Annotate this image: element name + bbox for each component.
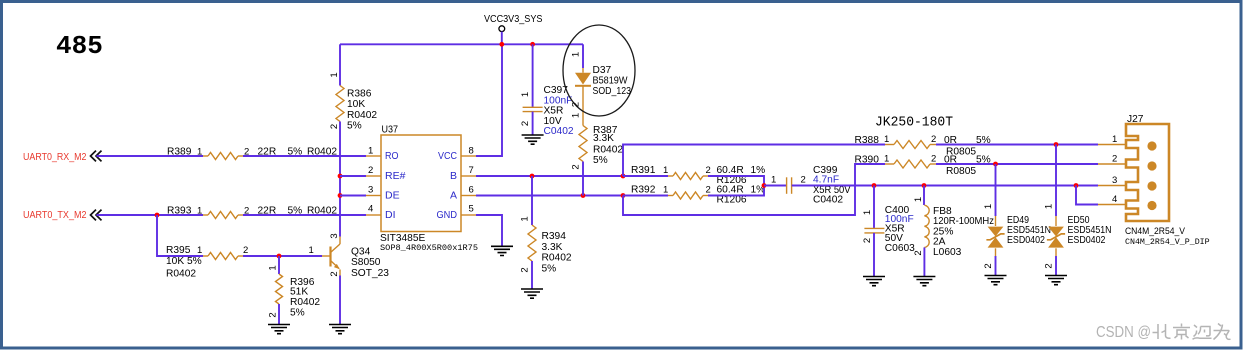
svg-text:SIT3485E: SIT3485E bbox=[380, 233, 426, 244]
wire C400 to ground bbox=[873, 233, 875, 276]
svg-text:5%: 5% bbox=[542, 263, 557, 274]
svg-text:UART0_TX_M2: UART0_TX_M2 bbox=[23, 210, 87, 221]
junction VCC rail node bbox=[499, 42, 504, 47]
U37 pin stubs right bbox=[461, 156, 476, 215]
junction R395/R396 node bbox=[277, 254, 282, 259]
svg-text:1: 1 bbox=[884, 154, 889, 165]
wire to DE pin bbox=[340, 195, 366, 197]
svg-text:1: 1 bbox=[862, 210, 873, 215]
wire UART0_RX_M2 to R389 bbox=[97, 155, 204, 157]
pin name RE# bbox=[385, 170, 406, 182]
svg-text:1: 1 bbox=[1044, 204, 1055, 209]
svg-text:10K: 10K bbox=[347, 99, 365, 110]
junction B/R391 node bbox=[621, 174, 626, 179]
label D37 bbox=[593, 65, 632, 97]
junction J27 pin4 branch node bbox=[1074, 183, 1079, 188]
inductor FB8 ferrite bead bbox=[924, 205, 929, 247]
junction TX node bbox=[155, 213, 160, 218]
svg-text:1: 1 bbox=[663, 165, 668, 176]
svg-text:SOD_123: SOD_123 bbox=[593, 86, 632, 97]
wire branch to J27 pin4 bbox=[1076, 186, 1098, 205]
svg-text:C0603: C0603 bbox=[885, 243, 915, 254]
junction R387 node on A row bbox=[581, 193, 586, 198]
connector J27 pin circle 4 bbox=[1147, 201, 1156, 210]
pin number 7 U37 bbox=[469, 165, 474, 176]
transistor Q34 S8050 bbox=[322, 237, 340, 276]
wire down to R396 bbox=[278, 256, 280, 274]
svg-text:5%: 5% bbox=[290, 307, 305, 318]
pin number 3 U37 bbox=[368, 185, 373, 196]
resistor R391 60.4R bbox=[668, 173, 708, 180]
pin number 2 Q34 emitter bbox=[329, 271, 340, 276]
wire R393 to U37 pin4 bbox=[243, 214, 366, 216]
svg-text:GND: GND bbox=[437, 209, 458, 221]
svg-text:2: 2 bbox=[931, 154, 936, 165]
wire VCC pin8 up to rail bbox=[476, 44, 502, 156]
label C399 bbox=[771, 165, 851, 206]
pin name GND bbox=[437, 209, 458, 221]
svg-text:1: 1 bbox=[571, 113, 582, 118]
pin number 6 U37 bbox=[469, 185, 474, 196]
wire node down to FB8 bbox=[923, 186, 925, 206]
svg-text:D37: D37 bbox=[593, 65, 612, 76]
svg-text:R389: R389 bbox=[167, 146, 192, 157]
label R388 bbox=[855, 134, 991, 158]
resistor R390 0R bbox=[885, 160, 936, 168]
svg-text:UART0_RX_M2: UART0_RX_M2 bbox=[23, 152, 87, 163]
svg-text:CN4M_2R54_V_P_DIP: CN4M_2R54_V_P_DIP bbox=[1125, 238, 1210, 247]
junction ED49 node bbox=[993, 162, 998, 167]
svg-text:5%: 5% bbox=[347, 121, 362, 132]
resistor R389 22R bbox=[203, 153, 243, 160]
wire C397 to ground bbox=[532, 112, 534, 135]
label U37 bbox=[382, 125, 399, 136]
label CN4M_2R54_V bbox=[1125, 226, 1186, 236]
connector J27 body bbox=[1126, 124, 1169, 221]
pin name DE bbox=[385, 189, 400, 201]
junction C397 rail node bbox=[530, 42, 535, 47]
ground under FB8 bbox=[913, 277, 935, 286]
svg-text:JK250-180T: JK250-180T bbox=[875, 116, 953, 131]
svg-text:3: 3 bbox=[329, 233, 340, 238]
svg-text:1: 1 bbox=[197, 205, 202, 216]
pin number 1 ED50 bbox=[1044, 204, 1055, 209]
svg-text:SOT_23: SOT_23 bbox=[351, 268, 389, 279]
wire rail down to R386 bbox=[339, 44, 341, 85]
capacitor C400 100nF bbox=[864, 228, 884, 233]
svg-text:R0402: R0402 bbox=[542, 253, 572, 264]
svg-text:R0402: R0402 bbox=[347, 110, 377, 121]
svg-text:3: 3 bbox=[368, 185, 373, 196]
pin number 8 U37 bbox=[469, 146, 474, 157]
svg-text:R388: R388 bbox=[855, 135, 880, 146]
pin number 2 R394 bbox=[520, 267, 531, 272]
pin number 2 R386 bbox=[329, 124, 340, 129]
svg-text:R390: R390 bbox=[855, 155, 880, 166]
op-amp U37 SIT3485E body bbox=[381, 135, 461, 232]
wire Q34 collector up to DE node bbox=[339, 196, 341, 237]
resistor R395 10K bbox=[203, 253, 243, 260]
resistor R394 3.3K bbox=[528, 225, 536, 261]
svg-text:7: 7 bbox=[469, 165, 474, 176]
pin number 2 ED50 bbox=[1044, 263, 1055, 268]
svg-text:8: 8 bbox=[469, 146, 474, 157]
wire VCC3V3 rail bbox=[340, 43, 583, 45]
label R389 bbox=[167, 146, 337, 157]
wire R390 to J27 pin2 bbox=[936, 163, 1098, 165]
svg-text:2: 2 bbox=[862, 238, 873, 243]
svg-text:2: 2 bbox=[913, 250, 924, 255]
svg-text:1: 1 bbox=[368, 146, 373, 157]
ground under R396 bbox=[268, 325, 290, 334]
pin number 1 R387 bbox=[571, 113, 582, 118]
pin number 1 Q34 base bbox=[309, 245, 314, 256]
label CN4M_2R54_V_P_DIP bbox=[1125, 238, 1210, 247]
pin name RO bbox=[385, 150, 399, 162]
svg-text:5: 5 bbox=[469, 204, 474, 215]
label SIT3485E bbox=[380, 233, 426, 244]
svg-text:A: A bbox=[450, 189, 457, 201]
pin number 1 D37 bbox=[571, 52, 582, 57]
resistor R393 22R bbox=[203, 212, 243, 219]
resistor R386 10K bbox=[336, 86, 344, 122]
pin number 2 C400 bbox=[862, 238, 873, 243]
label R391 bbox=[631, 165, 765, 186]
ground under U37 pin5 bbox=[491, 246, 513, 255]
resistor R387 3.3K bbox=[579, 126, 587, 162]
svg-text:R0402: R0402 bbox=[166, 268, 196, 279]
svg-text:2A: 2A bbox=[933, 236, 946, 247]
wire R392 to C399 node bbox=[708, 186, 764, 196]
svg-text:2: 2 bbox=[706, 184, 711, 195]
svg-text:2: 2 bbox=[329, 271, 340, 276]
pin name DI bbox=[385, 209, 396, 221]
power symbol VCC circle bbox=[499, 26, 505, 32]
svg-text:2: 2 bbox=[801, 174, 806, 185]
label C397 bbox=[544, 85, 574, 137]
pin number 2 D37 bbox=[571, 102, 582, 107]
watermark glyph xun bbox=[1193, 325, 1212, 339]
pin number 2 ED49 bbox=[983, 263, 994, 268]
pin number 1 J27 bbox=[1112, 134, 1117, 145]
connector J27 pin3 stub bbox=[1098, 185, 1126, 187]
junction R394 node on B row bbox=[530, 174, 535, 179]
svg-text:3.3K: 3.3K bbox=[593, 133, 614, 144]
connector J27 pin circle 3 bbox=[1147, 181, 1156, 190]
watermark glyph jing bbox=[1173, 324, 1190, 340]
pin number 3 J27 bbox=[1112, 175, 1117, 186]
svg-text:R0805: R0805 bbox=[946, 166, 976, 177]
capacitor C397 100nF bbox=[523, 107, 543, 111]
pin number 1 U37 bbox=[368, 146, 373, 157]
svg-text:U37: U37 bbox=[382, 125, 399, 136]
pin number 2 FB8 bbox=[913, 250, 924, 255]
svg-text:2: 2 bbox=[368, 165, 373, 176]
pin number 3 Q34 collector bbox=[329, 233, 340, 238]
connector J27 pin1 stub bbox=[1098, 144, 1126, 146]
svg-text:485: 485 bbox=[56, 31, 103, 61]
svg-text:2: 2 bbox=[520, 121, 531, 126]
pin number 5 U37 bbox=[469, 204, 474, 215]
wire Q34 emitter to ground bbox=[339, 276, 341, 325]
svg-text:C0402: C0402 bbox=[813, 194, 843, 205]
svg-text:RE#: RE# bbox=[385, 170, 406, 182]
wire A node to R392 bbox=[623, 195, 668, 197]
connector J27 pin2 stub bbox=[1098, 163, 1126, 165]
wire R386 to RE#/DE nodes bbox=[339, 122, 341, 196]
label C400 bbox=[885, 205, 915, 254]
junction C399 node bbox=[762, 183, 767, 188]
svg-text:1: 1 bbox=[884, 134, 889, 145]
connector J27 pin circle 1 bbox=[1147, 141, 1156, 150]
svg-text:CSDN @: CSDN @ bbox=[1096, 324, 1151, 341]
capacitor C399 4.7nF bbox=[787, 177, 792, 194]
svg-text:R391: R391 bbox=[631, 165, 656, 176]
pin number 4 J27 bbox=[1112, 194, 1117, 205]
svg-text:B5819W: B5819W bbox=[593, 76, 628, 87]
svg-text:1%: 1% bbox=[751, 165, 766, 176]
svg-text:2: 2 bbox=[983, 263, 994, 268]
wire R395 to Q34 base bbox=[243, 255, 322, 257]
svg-text:2: 2 bbox=[1112, 153, 1117, 164]
off-page connector chevron RX bbox=[91, 151, 102, 162]
label Q34 bbox=[351, 246, 389, 279]
wire B pin7 to node bbox=[476, 175, 623, 177]
label R390 bbox=[855, 154, 991, 178]
watermark glyph bei bbox=[1153, 324, 1171, 339]
pin name A bbox=[450, 189, 457, 201]
wire ED49 node down bbox=[995, 164, 997, 216]
pin number 1 R396 bbox=[268, 265, 279, 270]
resistor R388 0R bbox=[885, 141, 936, 149]
svg-text:120R-100MHz: 120R-100MHz bbox=[933, 216, 994, 227]
label FB8 bbox=[933, 206, 994, 258]
pin number 2 J27 bbox=[1112, 153, 1117, 164]
ground under C400 bbox=[863, 277, 885, 286]
svg-text:SOP8_4R00X5R00x1R75: SOP8_4R00X5R00x1R75 bbox=[380, 243, 478, 253]
wire R394 to ground bbox=[531, 261, 533, 289]
pin number 1 R394 bbox=[520, 216, 531, 221]
resistor R396 51K bbox=[276, 274, 283, 304]
svg-text:RO: RO bbox=[385, 150, 399, 162]
svg-text:B: B bbox=[450, 170, 457, 182]
junction C400 node bbox=[872, 183, 877, 188]
junction ED50 node bbox=[1054, 142, 1059, 147]
label J27 bbox=[1127, 114, 1144, 125]
wire B node up to R388 row bbox=[623, 145, 885, 177]
ground under ED50 bbox=[1045, 276, 1067, 285]
label R392 bbox=[631, 184, 765, 205]
svg-text:2: 2 bbox=[1044, 263, 1055, 268]
ground under ED49 bbox=[985, 276, 1007, 285]
svg-text:Q34: Q34 bbox=[351, 246, 371, 257]
wire B node to R391 bbox=[623, 175, 668, 177]
wire C399 to J27 pin3 bbox=[792, 185, 1098, 187]
svg-text:5%: 5% bbox=[593, 155, 608, 166]
diode ED49 ESD5451N bbox=[986, 216, 1004, 256]
svg-text:VCC: VCC bbox=[438, 150, 457, 162]
svg-text:1: 1 bbox=[520, 216, 531, 221]
wire to RE# pin bbox=[340, 175, 366, 177]
off-page connector chevron TX bbox=[91, 210, 102, 221]
svg-text:1: 1 bbox=[197, 146, 202, 157]
U37 pin stubs left bbox=[366, 156, 381, 215]
junction DE node bbox=[338, 193, 343, 198]
svg-text:2: 2 bbox=[243, 245, 248, 256]
ground under R394 bbox=[521, 289, 543, 298]
svg-text:3.3K: 3.3K bbox=[542, 242, 563, 253]
highlight ellipse around D37 bbox=[563, 25, 635, 116]
wire R391 to C399 node bbox=[708, 176, 764, 186]
label R396 bbox=[290, 277, 320, 318]
svg-text:4: 4 bbox=[1112, 194, 1117, 205]
svg-text:1: 1 bbox=[663, 184, 668, 195]
svg-text:1: 1 bbox=[520, 92, 531, 97]
svg-text:DE: DE bbox=[385, 189, 400, 201]
svg-text:J27: J27 bbox=[1127, 114, 1144, 125]
ground under Q34 bbox=[329, 325, 351, 334]
resistor R392 60.4R bbox=[668, 192, 708, 199]
pin name VCC bbox=[438, 150, 457, 162]
pin number 1 R386 bbox=[329, 72, 340, 77]
svg-text:1: 1 bbox=[197, 245, 202, 256]
pin number 4 U37 bbox=[368, 204, 373, 215]
wire R396 to ground bbox=[278, 304, 280, 324]
wire A node down and across to R390 bbox=[623, 164, 885, 215]
wire ED49 to ground bbox=[995, 256, 997, 275]
wire VCC symbol stub bbox=[501, 32, 503, 45]
svg-text:2: 2 bbox=[329, 124, 340, 129]
svg-text:2: 2 bbox=[268, 312, 279, 317]
watermark CSDN text bbox=[1096, 324, 1151, 341]
svg-text:1: 1 bbox=[983, 204, 994, 209]
wire UART0_TX_M2 to R393 bbox=[97, 214, 204, 216]
wire FB8 to ground bbox=[923, 247, 925, 276]
svg-text:6: 6 bbox=[469, 185, 474, 196]
svg-text:3: 3 bbox=[1112, 175, 1117, 186]
pin number 1 C397 bbox=[520, 92, 531, 97]
svg-text:R392: R392 bbox=[631, 184, 656, 195]
svg-text:4: 4 bbox=[368, 204, 373, 215]
title 485 bbox=[56, 31, 103, 61]
svg-text:ESD0402: ESD0402 bbox=[1007, 235, 1045, 246]
wire rail down to C397 bbox=[532, 44, 534, 107]
watermark glyph wei bbox=[1214, 324, 1231, 340]
wire B row down to R394 bbox=[531, 176, 533, 225]
svg-text:1: 1 bbox=[329, 72, 340, 77]
wire ED50 node down bbox=[1055, 145, 1057, 217]
wire R389 to U37 pin1 bbox=[243, 155, 366, 157]
junction RE# node bbox=[338, 174, 343, 179]
svg-text:R393: R393 bbox=[167, 205, 192, 216]
svg-text:S8050: S8050 bbox=[351, 257, 381, 268]
label ED49 bbox=[1007, 215, 1051, 246]
svg-text:4.7nF: 4.7nF bbox=[813, 174, 839, 185]
wire rail down to D37 bbox=[582, 44, 584, 68]
pin number 2 C397 bbox=[520, 121, 531, 126]
svg-text:R395: R395 bbox=[166, 245, 191, 256]
svg-text:2: 2 bbox=[931, 134, 936, 145]
svg-text:VCC3V3_SYS: VCC3V3_SYS bbox=[484, 14, 543, 25]
svg-text:2: 2 bbox=[520, 267, 531, 272]
junction A/R392 node bbox=[621, 193, 626, 198]
wire A pin6 to node bbox=[476, 195, 623, 197]
svg-text:2: 2 bbox=[706, 165, 711, 176]
wire node down to C400 bbox=[873, 186, 875, 229]
svg-text:1: 1 bbox=[571, 52, 582, 57]
svg-text:R386: R386 bbox=[347, 88, 372, 99]
label R395 bbox=[166, 245, 248, 279]
pin number 1 C400 bbox=[862, 210, 873, 215]
svg-text:1: 1 bbox=[268, 265, 279, 270]
wire ED50 to ground bbox=[1055, 256, 1057, 275]
svg-text:CN4M_2R54_V: CN4M_2R54_V bbox=[1125, 226, 1186, 236]
label SOP8_4R00X5R00x1R75 bbox=[380, 243, 478, 253]
diode D37 B5819W bbox=[575, 68, 591, 126]
connector J27 pin circle 2 bbox=[1147, 161, 1156, 170]
net label VCC3V3_SYS bbox=[484, 14, 543, 25]
svg-text:1: 1 bbox=[1112, 134, 1117, 145]
diode ED50 ESD5451N bbox=[1047, 216, 1065, 256]
wire R387 down to A row bbox=[582, 162, 584, 196]
label JK250-180T bbox=[875, 116, 953, 131]
svg-text:DI: DI bbox=[385, 209, 396, 221]
svg-text:10K 5%: 10K 5% bbox=[166, 256, 202, 267]
svg-text:C0402: C0402 bbox=[544, 126, 574, 137]
pin name B bbox=[450, 170, 457, 182]
svg-text:1: 1 bbox=[771, 174, 776, 185]
label R394 bbox=[542, 231, 572, 274]
svg-text:51K: 51K bbox=[290, 287, 308, 298]
wire node to C399 bbox=[764, 185, 787, 187]
svg-text:R0402: R0402 bbox=[290, 297, 320, 308]
pin number 1 ED49 bbox=[983, 204, 994, 209]
wire GND pin5 down bbox=[476, 215, 502, 246]
svg-text:1: 1 bbox=[913, 197, 924, 202]
pin number 2 U37 bbox=[368, 165, 373, 176]
junction FB8 node bbox=[922, 183, 927, 188]
svg-text:R394: R394 bbox=[542, 231, 567, 242]
wire TX drop to R395 row bbox=[157, 215, 203, 256]
label ED50 bbox=[1068, 215, 1112, 246]
ground under C397 bbox=[522, 135, 544, 144]
svg-text:2: 2 bbox=[571, 102, 582, 107]
net label UART0_TX_M2 bbox=[23, 210, 87, 221]
svg-text:1: 1 bbox=[309, 245, 314, 256]
wire R388 to J27 pin1 bbox=[936, 144, 1098, 146]
svg-text:L0603: L0603 bbox=[933, 247, 962, 258]
label R386 bbox=[347, 88, 377, 131]
svg-text:ESD0402: ESD0402 bbox=[1068, 235, 1106, 246]
pin number 1 FB8 bbox=[913, 197, 924, 202]
label R393 bbox=[167, 205, 337, 216]
svg-text:2: 2 bbox=[571, 164, 582, 169]
pin number 2 R387 bbox=[571, 164, 582, 169]
net label UART0_RX_M2 bbox=[23, 152, 87, 163]
connector J27 pin4 stub bbox=[1098, 204, 1126, 206]
pin number 2 R396 bbox=[268, 312, 279, 317]
label R387 bbox=[593, 125, 623, 166]
